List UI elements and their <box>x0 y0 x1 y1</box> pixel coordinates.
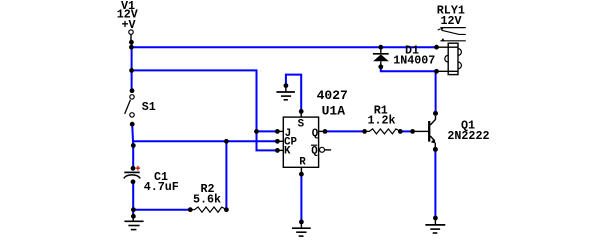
svg-text:Q: Q <box>312 128 319 140</box>
svg-text:S: S <box>298 119 305 131</box>
svg-text:12V: 12V <box>441 14 462 28</box>
svg-text:4.7uF: 4.7uF <box>144 180 179 194</box>
svg-text:S1: S1 <box>142 100 156 114</box>
svg-text:1N4007: 1N4007 <box>393 54 435 68</box>
svg-text:U1A: U1A <box>322 104 346 119</box>
svg-text:K: K <box>284 145 291 157</box>
svg-text:Q: Q <box>311 145 318 157</box>
svg-text:+V: +V <box>122 18 136 32</box>
svg-text:2N2222: 2N2222 <box>447 129 489 143</box>
svg-text:R: R <box>299 157 306 169</box>
svg-text:4027: 4027 <box>317 88 348 103</box>
svg-text:1.2k: 1.2k <box>368 113 396 127</box>
svg-text:5.6k: 5.6k <box>193 193 221 207</box>
